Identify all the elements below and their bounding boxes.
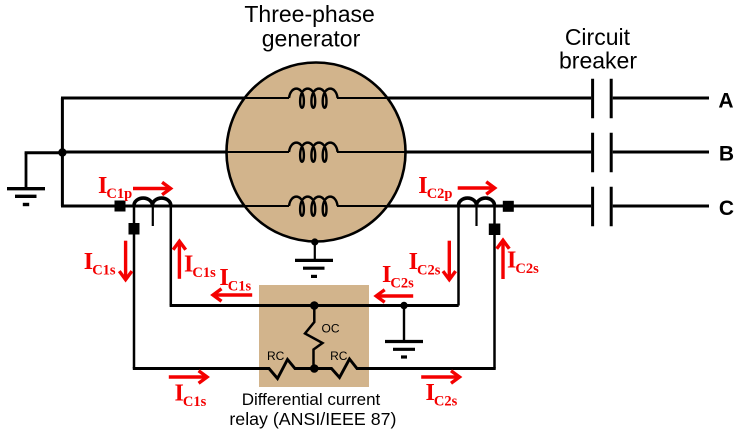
svg-text:C1s: C1s — [183, 394, 207, 410]
svg-text:C1s: C1s — [192, 265, 216, 281]
svg-text:RC: RC — [330, 349, 348, 363]
svg-text:A: A — [718, 89, 733, 112]
svg-text:C2s: C2s — [417, 263, 441, 279]
svg-text:RC: RC — [267, 349, 285, 363]
svg-text:OC: OC — [322, 322, 340, 336]
svg-text:breaker: breaker — [559, 47, 637, 73]
svg-text:relay (ANSI/IEEE 87): relay (ANSI/IEEE 87) — [229, 409, 396, 429]
svg-text:generator: generator — [262, 26, 361, 52]
svg-text:C2p: C2p — [427, 186, 453, 202]
svg-text:C2s: C2s — [390, 276, 414, 292]
svg-text:B: B — [719, 143, 734, 166]
svg-text:Differential current: Differential current — [242, 390, 381, 409]
svg-text:Three-phase: Three-phase — [244, 1, 374, 27]
svg-text:C1s: C1s — [228, 279, 252, 295]
svg-text:Circuit: Circuit — [565, 24, 631, 50]
svg-text:C1s: C1s — [92, 263, 116, 279]
svg-text:C2s: C2s — [434, 394, 458, 410]
svg-text:C2s: C2s — [515, 261, 539, 277]
svg-text:C1p: C1p — [106, 186, 132, 202]
svg-text:C: C — [719, 197, 734, 220]
